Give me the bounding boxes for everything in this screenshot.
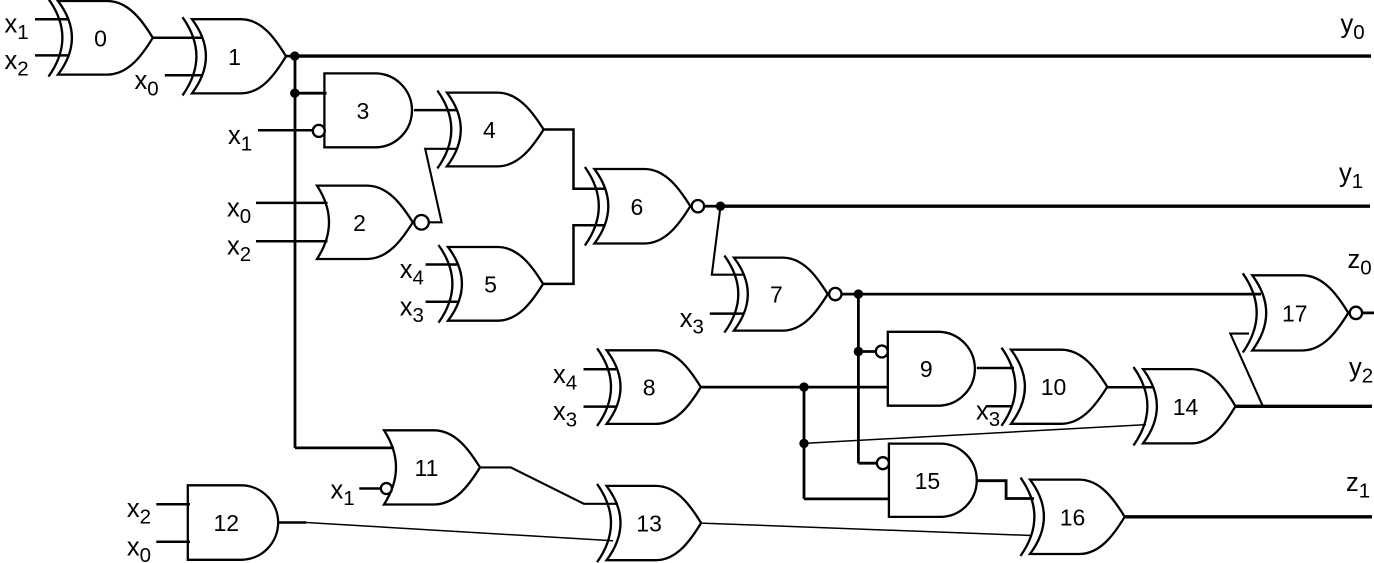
svg-text:5: 5 xyxy=(484,271,497,297)
XOR gate 14 xyxy=(1134,367,1236,445)
wire node C diagonal to gate 7 upper input xyxy=(712,206,744,275)
wire node G diagonal to gate 14 lower input xyxy=(804,425,1146,444)
svg-text:14: 14 xyxy=(1173,394,1199,420)
wire elbow to gate 15 lower input xyxy=(804,497,890,500)
AND gate 15 (inverted input) xyxy=(877,444,977,517)
wire node A vertical down to gate 11 elbow xyxy=(294,56,297,448)
XOR gate 1 xyxy=(183,17,287,95)
wire input x0 to gate 2 xyxy=(256,202,328,205)
wire input x2 to gate 12 xyxy=(156,503,190,506)
XOR gate 13 xyxy=(597,484,701,562)
wire node D to gate 17 upper input xyxy=(858,293,1261,296)
svg-text:16: 16 xyxy=(1060,504,1086,530)
NOR gate 2 xyxy=(317,186,429,259)
wire y2 branch zigzag to gate 17 lower input xyxy=(1230,334,1263,407)
wire node B to gate 3 top input xyxy=(295,92,327,95)
svg-text:6: 6 xyxy=(631,194,644,220)
wire gate 4 output elbow to gate 6 upper input xyxy=(544,130,605,189)
svg-text:7: 7 xyxy=(770,282,783,308)
wire node A to output y0 xyxy=(295,54,1371,57)
svg-text:17: 17 xyxy=(1282,300,1308,326)
wire gate 0 output to gate 1 xyxy=(153,37,202,40)
svg-text:15: 15 xyxy=(915,468,941,494)
wire gate 5 output elbow to gate 6 lower input xyxy=(543,225,604,284)
XOR gate 10 xyxy=(1002,348,1108,426)
XOR gate 5 xyxy=(439,245,544,323)
wire gate 10 output to gate 14 upper input xyxy=(1107,386,1153,389)
junction node A (gate 1 output) xyxy=(290,51,299,60)
svg-text:12: 12 xyxy=(214,510,240,536)
wire gate 15 output elbow to gate 16 upper input xyxy=(977,481,1034,499)
wire input x0 to gate 1 xyxy=(165,74,202,77)
svg-text:11: 11 xyxy=(415,455,439,481)
wire gate 13 output diagonal to gate 16 lower input xyxy=(701,523,1031,535)
wire gate 1 output to node A xyxy=(286,55,295,58)
wire node C to output y1 xyxy=(721,204,1371,207)
wire gate 7 bubble to node D xyxy=(842,293,858,296)
wire gate 12 output diagonal to gate 13 lower input xyxy=(306,523,613,541)
svg-text:10: 10 xyxy=(1041,374,1067,400)
XNOR gate 7 xyxy=(724,256,841,333)
wire gate 11 output zigzag to gate 13 upper input xyxy=(480,467,618,503)
wire gate 17 bubble to output z0 xyxy=(1362,311,1374,314)
junction node F (gate 8 output branch) xyxy=(799,382,808,391)
svg-text:8: 8 xyxy=(643,375,656,401)
wire input x2 to gate 0 xyxy=(35,54,68,57)
XNOR gate 17 xyxy=(1243,273,1362,352)
svg-text:9: 9 xyxy=(920,356,933,382)
AND gate 12 xyxy=(188,485,278,560)
wire gate 3 output to gate 4 xyxy=(414,109,457,112)
XOR gate 8 xyxy=(597,348,701,426)
junction node B (branch to gate 3) xyxy=(290,89,299,98)
svg-text:4: 4 xyxy=(483,117,496,143)
wire node E to gate 9 bubble input xyxy=(858,350,875,353)
junction node D (gate 7 output) xyxy=(854,289,863,298)
junction node E (branch to gate 9) xyxy=(854,347,863,356)
wire gate 14 output to output y2 xyxy=(1236,405,1373,408)
XNOR gate 6 xyxy=(585,167,704,246)
wire input x1 to gate 11 bubble xyxy=(359,487,381,490)
wire elbow to gate 11 upper input xyxy=(295,446,394,449)
wire elbow to gate 15 bubble input xyxy=(858,462,877,465)
AND gate 3 (inverted input) xyxy=(313,73,412,147)
wire gate 9 output to gate 10 upper input xyxy=(977,367,1014,370)
wire gate 16 output to output z1 xyxy=(1124,515,1372,518)
junction node G (branch to gate 14) xyxy=(799,439,808,448)
wire input x1 to gate 0 xyxy=(35,18,68,21)
svg-text:2: 2 xyxy=(353,210,366,236)
wire input x4 to gate 8 xyxy=(584,368,617,371)
wire input x3 to gate 10 xyxy=(986,405,1012,408)
wire input x3 to gate 7 xyxy=(710,312,744,315)
XOR gate 0 xyxy=(49,0,153,77)
wire input x3 to gate 5 xyxy=(426,301,458,304)
svg-text:1: 1 xyxy=(228,44,241,70)
junction node C (gate 6 output on y1) xyxy=(716,202,725,211)
wire input x4 to gate 5 xyxy=(426,263,458,266)
XOR gate 16 xyxy=(1021,478,1125,556)
OR gate 11 (inverted input) xyxy=(381,430,480,504)
wire gate 6 bubble to node C xyxy=(705,205,721,208)
wire input x0 to gate 12 xyxy=(156,541,190,544)
svg-text:3: 3 xyxy=(357,98,370,124)
wire input x2 to gate 2 xyxy=(256,240,328,243)
svg-text:13: 13 xyxy=(636,511,662,537)
wire input x1 to gate 3 bubble xyxy=(258,129,313,132)
wire node D vertical down to gate 15 elbow xyxy=(857,294,860,463)
wire gate 12 output stub xyxy=(278,521,306,524)
svg-text:0: 0 xyxy=(94,25,107,51)
wire gate 2 output zigzag to gate 4 lower input xyxy=(425,149,457,223)
XOR gate 4 xyxy=(437,91,543,169)
AND gate 9 (inverted input) xyxy=(876,332,975,406)
wire gate 8 output to gate 9 lower input xyxy=(701,386,889,389)
wire input x3 to gate 8 xyxy=(584,405,617,408)
wire node F vertical down to gate 15 lower elbow xyxy=(803,387,806,499)
